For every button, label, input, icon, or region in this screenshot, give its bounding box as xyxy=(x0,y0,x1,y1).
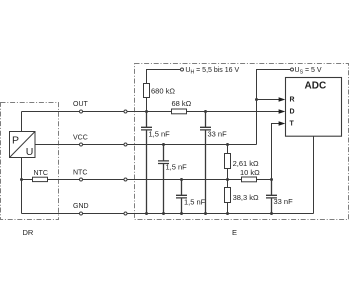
capacitor C5 33nF xyxy=(266,180,277,214)
svg-text:2,61 kΩ: 2,61 kΩ xyxy=(233,159,259,168)
node R tap xyxy=(255,98,258,101)
sensor U1 diagonal xyxy=(10,132,36,158)
svg-text:1,5 nF: 1,5 nF xyxy=(184,197,206,206)
DR enclosure box xyxy=(1,103,59,220)
resistor R2 68k body xyxy=(172,109,187,114)
capacitor C4 33nF xyxy=(200,112,211,214)
svg-text:33 nF: 33 nF xyxy=(208,129,228,138)
svg-text:NTC: NTC xyxy=(34,170,48,177)
wire R tap to ADC R xyxy=(257,99,281,101)
terminal OUT b xyxy=(124,110,127,113)
resistor NTC body xyxy=(33,177,48,181)
svg-text:1,5 nF: 1,5 nF xyxy=(149,129,171,138)
node GND/38,3k xyxy=(226,212,229,215)
resistor R3 2,61k branch xyxy=(227,145,229,214)
svg-text:NTC: NTC xyxy=(73,170,87,177)
ADC box xyxy=(286,78,342,137)
svg-text:P: P xyxy=(12,135,19,147)
node T/33nF xyxy=(270,178,273,181)
node NTC divider xyxy=(226,178,229,181)
node sensor NTC tap xyxy=(20,178,23,181)
node OUT/33nF xyxy=(204,110,207,113)
svg-text:GND: GND xyxy=(73,203,89,210)
pin arrows into ADC xyxy=(279,97,286,126)
svg-text:33 nF: 33 nF xyxy=(274,197,294,206)
terminal OUT a xyxy=(80,110,83,113)
E enclosure box xyxy=(135,64,349,220)
node VCC/2,61k xyxy=(226,143,229,146)
wire US vertical xyxy=(257,70,291,145)
terminal NTC a xyxy=(80,178,83,181)
node OUT/680k xyxy=(145,110,148,113)
terminal GND b xyxy=(124,212,127,215)
wire GND line xyxy=(22,213,314,215)
resistor R3 2,61k body xyxy=(225,154,231,169)
terminal VCC a xyxy=(80,143,83,146)
svg-text:T: T xyxy=(290,121,295,128)
arrow pin T xyxy=(279,121,286,126)
wire NTC line xyxy=(48,179,242,181)
svg-text:680 kΩ: 680 kΩ xyxy=(151,87,175,96)
svg-text:U: U xyxy=(26,146,34,158)
svg-text:DR: DR xyxy=(23,228,34,237)
wire OUT to ADC D xyxy=(187,111,281,113)
svg-text:ADC: ADC xyxy=(305,81,327,92)
svg-text:E: E xyxy=(232,228,237,237)
terminal VCC b xyxy=(124,143,127,146)
svg-text:OUT: OUT xyxy=(73,101,89,108)
node GND/C5 xyxy=(270,212,273,215)
node GND/C2 xyxy=(162,212,165,215)
svg-text:D: D xyxy=(290,109,295,116)
resistor R4 38,3k body xyxy=(225,188,231,203)
wire UH feed xyxy=(147,70,181,112)
svg-text:R: R xyxy=(290,97,295,104)
resistor R1 680k body xyxy=(144,84,150,98)
wire sensor bottom to GND xyxy=(21,158,23,214)
capacitor C3 1,5nF xyxy=(176,180,187,214)
sensor U1 body xyxy=(10,132,36,158)
svg-text:38,3 kΩ: 38,3 kΩ xyxy=(233,193,259,202)
wire ADC ground return xyxy=(313,136,315,213)
node NTC/C3 xyxy=(180,178,183,181)
wire OUT line xyxy=(22,111,172,113)
terminal GND a xyxy=(80,212,83,215)
terminal US xyxy=(291,68,294,71)
resistor R5 10k body xyxy=(242,177,257,182)
wire T node up to ADC T xyxy=(272,124,281,180)
svg-text:10 kΩ: 10 kΩ xyxy=(240,168,260,177)
svg-text:68 kΩ: 68 kΩ xyxy=(172,99,192,108)
terminal UH xyxy=(181,68,184,71)
node GND/C4 xyxy=(204,212,207,215)
arrow pin R xyxy=(279,97,286,102)
connector terminal circles xyxy=(80,68,294,215)
wire 10k to T node xyxy=(257,179,272,181)
arrow pin D xyxy=(279,109,286,114)
capacitor C2 1,5nF xyxy=(158,145,169,214)
terminal NTC b xyxy=(124,178,127,181)
wire sensor top to OUT xyxy=(21,112,23,132)
svg-text:1,5 nF: 1,5 nF xyxy=(166,163,188,172)
wire NTC tap to resistor xyxy=(22,179,33,181)
capacitor C1 1,5nF xyxy=(141,112,152,214)
node GND/C3 xyxy=(180,212,183,215)
wire VCC line xyxy=(35,144,257,146)
node GND/C1 xyxy=(145,212,148,215)
svg-text:VCC: VCC xyxy=(73,135,88,142)
node VCC/C2 xyxy=(162,143,165,146)
